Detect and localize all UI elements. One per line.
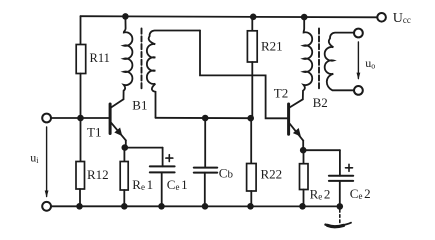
svg-text:Ce2: Ce2 xyxy=(350,186,371,201)
terminal uo top xyxy=(354,29,363,38)
resistor R21 xyxy=(247,31,257,62)
resistor Re2 xyxy=(300,164,309,190)
transistor T1 xyxy=(110,99,126,147)
plus Ce2 xyxy=(346,164,353,171)
wire R22 top xyxy=(250,118,252,163)
node R12 ground xyxy=(76,203,83,210)
node base T1 xyxy=(77,115,84,122)
svg-text:Re2: Re2 xyxy=(310,187,331,202)
resistor R22 xyxy=(247,164,257,192)
node B1 primary top xyxy=(122,13,129,20)
wire Re1 top xyxy=(123,148,125,162)
svg-text:R22: R22 xyxy=(261,167,283,182)
capacitor Cb xyxy=(194,118,217,206)
resistor Re1 xyxy=(120,162,128,191)
transformer B1 primary winding xyxy=(124,16,133,99)
svg-text:Ucc: Ucc xyxy=(393,11,411,26)
capacitor Ce2 xyxy=(329,150,353,206)
ground xyxy=(326,210,352,227)
wire input to base node xyxy=(51,117,109,119)
svg-text:B1: B1 xyxy=(132,97,147,112)
terminal input bottom xyxy=(42,202,51,211)
arrow uo xyxy=(357,42,361,80)
arrow ui xyxy=(45,127,49,198)
svg-text:ui: ui xyxy=(30,151,39,166)
transformer B2 primary winding xyxy=(303,17,312,99)
node Ce2 ground xyxy=(337,203,344,210)
wire top supply rail xyxy=(81,16,378,17)
wire R21 top xyxy=(251,17,253,31)
terminal uo bottom xyxy=(354,86,363,95)
svg-text:Re1: Re1 xyxy=(132,177,153,192)
wire Re2 bottom xyxy=(303,190,305,207)
node R21 R22 junction xyxy=(247,115,254,122)
wire bottom common rail xyxy=(51,205,340,207)
node B2 primary top xyxy=(301,14,308,21)
transistor T2 xyxy=(289,99,304,150)
svg-text:T1: T1 xyxy=(87,125,101,140)
node Ce1 ground xyxy=(158,203,165,210)
node Re1 ground xyxy=(121,203,128,210)
wire R11 column xyxy=(80,16,82,44)
svg-text:R21: R21 xyxy=(261,39,283,54)
svg-text:T2: T2 xyxy=(274,86,288,101)
terminal Ucc xyxy=(377,13,386,22)
wire emitter T1 to Ce1 xyxy=(125,147,163,149)
wire R22 bottom xyxy=(250,191,252,206)
svg-text:Cb: Cb xyxy=(219,166,234,181)
resistor R12 xyxy=(76,162,85,190)
wire Re2 top xyxy=(303,150,305,164)
terminal input top xyxy=(42,114,51,123)
svg-text:R12: R12 xyxy=(87,167,109,182)
wire R12 top xyxy=(80,118,82,162)
wire Re1 bottom xyxy=(123,190,125,206)
transformer B2 core xyxy=(318,29,320,91)
plus Ce1 xyxy=(166,155,173,162)
svg-text:uo: uo xyxy=(365,56,375,71)
svg-text:B2: B2 xyxy=(313,95,328,110)
svg-text:Ce1: Ce1 xyxy=(167,177,188,192)
wire R21 bottom xyxy=(251,62,253,118)
wire emitter T2 to Ce2 xyxy=(303,149,340,151)
transformer B1 core xyxy=(141,29,143,91)
node Cb ground xyxy=(202,203,209,210)
node emitter T2 xyxy=(300,147,307,154)
capacitor Ce1 xyxy=(150,148,175,207)
transformer B2 secondary winding xyxy=(325,33,354,91)
node emitter T1 xyxy=(122,144,129,151)
wire R11 bottom xyxy=(80,74,82,119)
wire R12 bottom xyxy=(79,189,81,206)
node Cb top xyxy=(202,115,209,122)
wire bias rail xyxy=(156,117,251,119)
node Re2 ground xyxy=(299,203,306,210)
svg-text:R11: R11 xyxy=(90,51,110,65)
transformer B1 secondary winding xyxy=(147,31,200,118)
node R21 top xyxy=(250,13,257,20)
wire B1 secondary top to T2 base xyxy=(200,31,287,119)
resistor R11 xyxy=(76,45,86,74)
node R22 ground xyxy=(247,203,254,210)
